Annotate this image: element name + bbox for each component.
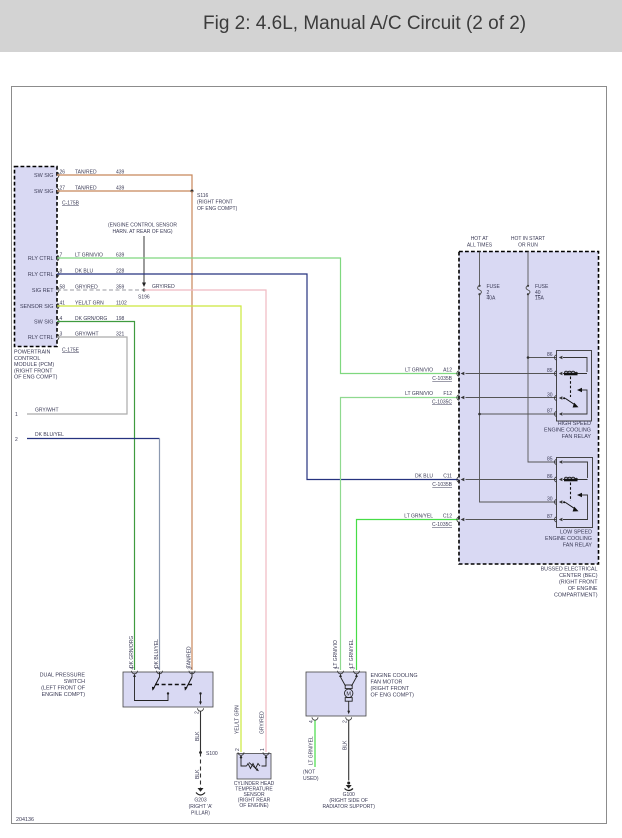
branch to high relay 87 <box>480 413 557 415</box>
svg-text:C12: C12 <box>443 514 452 520</box>
switch common contact to pin 2 <box>195 692 204 714</box>
svg-text:S116: S116 <box>197 193 209 199</box>
feed label HOT AT ALL TIMES <box>467 236 493 249</box>
high relay pin 30 and blade <box>547 393 579 408</box>
svg-text:DK BLU/YEL: DK BLU/YEL <box>35 432 64 438</box>
svg-text:(RIGHT FRONT: (RIGHT FRONT <box>371 686 410 692</box>
svg-text:RLY CTRL: RLY CTRL <box>28 335 54 341</box>
svg-text:C11: C11 <box>443 474 452 480</box>
svg-text:SW SIG: SW SIG <box>34 189 53 195</box>
splice S116 <box>191 190 194 193</box>
wire DK BLU pin 8 to BEC C11 <box>57 274 459 480</box>
wire LT GRN/VIO F12 to fan motor pin 1 <box>341 398 459 671</box>
svg-text:DK BLU/YEL: DK BLU/YEL <box>154 639 160 668</box>
svg-text:GRY/RED: GRY/RED <box>152 284 175 290</box>
feed wire 1 (fuse 2 to relays 87/30) <box>480 252 557 503</box>
junction <box>527 356 530 359</box>
svg-text:1: 1 <box>335 667 341 670</box>
svg-text:2: 2 <box>343 720 349 723</box>
CHT sensor box <box>237 754 271 780</box>
svg-text:GRY/RED: GRY/RED <box>260 711 266 734</box>
svg-text:MODULE (PCM): MODULE (PCM) <box>14 362 54 368</box>
BEC entry labels A12 <box>405 368 453 383</box>
svg-text:USED): USED) <box>303 776 319 782</box>
svg-text:204136: 204136 <box>16 817 34 823</box>
harness callout note <box>108 223 177 236</box>
svg-text:POWERTRAIN: POWERTRAIN <box>14 350 51 356</box>
svg-text:OF ENGINE): OF ENGINE) <box>239 803 269 809</box>
svg-text:LT GRN/YEL: LT GRN/YEL <box>404 514 433 520</box>
PCM pin 58 label SIG RET <box>32 285 125 294</box>
switch pin 1 <box>152 667 163 691</box>
low speed relay box <box>557 458 593 528</box>
svg-text:2: 2 <box>235 748 241 751</box>
svg-text:LT GRN/YEL: LT GRN/YEL <box>349 639 355 668</box>
high relay pin 86 <box>547 352 587 372</box>
CHT sensor caption <box>234 781 275 809</box>
svg-text:3: 3 <box>351 667 357 670</box>
svg-text:BLK: BLK <box>343 740 349 750</box>
svg-text:85: 85 <box>547 368 553 374</box>
PCM pin 7 label RLY CTRL <box>28 253 125 262</box>
svg-text:M: M <box>346 691 351 697</box>
feed wire 2 (fuse 40 to relays 86/85) <box>528 252 557 463</box>
svg-text:FAN RELAY: FAN RELAY <box>562 434 592 440</box>
BEC entry labels C12 <box>404 514 452 529</box>
low relay pin 87 and contact <box>547 493 588 522</box>
svg-text:S100: S100 <box>206 751 218 757</box>
low relay pin 86 and coil <box>547 474 588 482</box>
svg-text:COMPARTMENT): COMPARTMENT) <box>554 593 598 599</box>
svg-text:ENGINE COMPT): ENGINE COMPT) <box>42 692 86 698</box>
svg-text:OF ENGINE: OF ENGINE <box>568 586 598 592</box>
header bar <box>0 0 622 52</box>
BEC entry labels C11 <box>415 474 453 489</box>
svg-text:1: 1 <box>260 748 266 751</box>
splice S196 <box>143 289 146 292</box>
svg-text:OF ENG COMPT): OF ENG COMPT) <box>14 375 58 381</box>
svg-text:2: 2 <box>15 437 18 443</box>
BEC entry connector C11 <box>457 477 557 483</box>
dual pressure switch box <box>123 672 213 707</box>
switch pin 3 <box>184 667 195 691</box>
svg-text:30: 30 <box>547 497 553 503</box>
svg-text:G203: G203 <box>194 798 206 804</box>
wire YEL/LT GRN pin 41 to CHT sensor <box>57 306 241 752</box>
wire DK BLU/YEL vertical to pressure switch <box>159 439 161 671</box>
svg-text:CENTER (BEC): CENTER (BEC) <box>559 573 598 579</box>
svg-text:FAN RELAY: FAN RELAY <box>563 543 593 549</box>
low relay pin 85 <box>547 457 588 479</box>
svg-text:RLY CTRL: RLY CTRL <box>28 272 54 278</box>
motor M symbol <box>345 685 353 714</box>
svg-text:OF ENG COMPT): OF ENG COMPT) <box>197 206 238 212</box>
svg-text:LT GRN/VIO: LT GRN/VIO <box>405 368 433 374</box>
motor pin 2 ground lead <box>343 717 352 780</box>
svg-text:SW SIG: SW SIG <box>34 320 53 326</box>
svg-text:S196: S196 <box>138 295 150 301</box>
switch linkage dashes <box>155 684 192 686</box>
BEC entry labels F12 <box>405 391 452 406</box>
high speed relay box <box>557 351 592 422</box>
BEC box <box>459 252 599 565</box>
svg-text:87: 87 <box>547 514 553 520</box>
low relay caption <box>545 530 592 549</box>
svg-text:C-1035B: C-1035B <box>432 482 452 488</box>
svg-text:F12: F12 <box>443 391 452 397</box>
switch pin 4 <box>130 667 169 701</box>
wire GRY/RED solid to CHT sensor <box>144 290 266 752</box>
feed label HOT IN START OR RUN <box>511 236 545 249</box>
svg-text:(ENGINE CONTROL SENSOR: (ENGINE CONTROL SENSOR <box>108 223 177 229</box>
svg-text:HOT AT: HOT AT <box>471 236 489 242</box>
wire GRY/RED dashed segment to S196 <box>57 289 144 291</box>
svg-text:C-1035B: C-1035B <box>432 376 452 382</box>
svg-text:2: 2 <box>195 711 201 714</box>
motor pin 1 <box>335 667 346 687</box>
svg-text:DK BLU: DK BLU <box>415 474 433 480</box>
svg-text:RLY CTRL: RLY CTRL <box>28 256 54 262</box>
svg-text:(LEFT FRONT OF: (LEFT FRONT OF <box>41 686 86 692</box>
svg-text:OF ENG COMPT): OF ENG COMPT) <box>371 693 415 699</box>
PCM pin 26 label SW SIG <box>34 170 125 179</box>
svg-text:LT GRN/VIO: LT GRN/VIO <box>333 640 339 668</box>
PCM pin 8 label RLY CTRL <box>28 269 125 278</box>
svg-text:BLK: BLK <box>195 731 201 741</box>
wire GRY/WHT pin 3 to lead 1 <box>27 337 127 414</box>
high relay armature linkage <box>570 377 572 398</box>
svg-text:ENGINE COOLING: ENGINE COOLING <box>545 536 592 542</box>
svg-text:ENGINE COOLING: ENGINE COOLING <box>371 673 418 679</box>
svg-text:DK GRN/ORG: DK GRN/ORG <box>129 636 135 668</box>
wire TAN/RED pin 26 <box>57 175 192 191</box>
svg-text:1: 1 <box>15 412 18 418</box>
svg-text:C-1035C: C-1035C <box>432 522 452 528</box>
svg-text:85: 85 <box>547 457 553 463</box>
low relay armature linkage <box>570 483 572 502</box>
svg-text:(RIGHT FRONT: (RIGHT FRONT <box>559 580 598 586</box>
PCM pin 3 label RLY CTRL <box>28 332 125 341</box>
sensor pin 2 <box>235 748 247 766</box>
svg-text:FAN MOTOR: FAN MOTOR <box>371 680 403 686</box>
wire DK GRN/ORG pin 4 to pressure switch <box>57 322 135 671</box>
svg-text:1: 1 <box>155 667 161 670</box>
PCM pin 41 label SENSOR SIG <box>20 301 127 310</box>
svg-text:86: 86 <box>547 474 553 480</box>
svg-text:4: 4 <box>130 667 136 670</box>
svg-text:(RIGHT FRONT: (RIGHT FRONT <box>197 200 233 206</box>
svg-text:(NOT: (NOT <box>303 770 315 776</box>
svg-text:ENGINE COOLING: ENGINE COOLING <box>544 428 591 434</box>
wire BLK dashed to ground <box>200 753 202 789</box>
svg-text:SWITCH: SWITCH <box>64 679 85 685</box>
motor caption <box>371 673 418 699</box>
svg-text:BUSSED ELECTRICAL: BUSSED ELECTRICAL <box>541 567 598 573</box>
BEC entry connector C12 <box>457 517 557 523</box>
splice S100 <box>199 751 202 754</box>
svg-text:LOW SPEED: LOW SPEED <box>560 530 592 536</box>
svg-text:40A: 40A <box>487 296 497 302</box>
sensor pin 1 <box>260 748 269 766</box>
svg-text:HARN. AT REAR OF ENG): HARN. AT REAR OF ENG) <box>112 229 172 235</box>
BEC entry connector A12 <box>457 371 557 377</box>
ground G100 <box>322 782 375 811</box>
svg-text:PILLAR): PILLAR) <box>191 811 210 817</box>
svg-text:30: 30 <box>547 393 553 399</box>
svg-text:BLK: BLK <box>195 769 201 779</box>
fuse 2 40A <box>478 284 501 302</box>
svg-text:SW SIG: SW SIG <box>34 173 53 179</box>
svg-text:SIG RET: SIG RET <box>32 288 54 294</box>
svg-text:3: 3 <box>188 667 194 670</box>
svg-text:OR RUN: OR RUN <box>518 243 538 249</box>
svg-text:ALL TIMES: ALL TIMES <box>467 243 493 249</box>
svg-text:A12: A12 <box>443 368 452 374</box>
wire TAN/RED vertical to switch <box>191 191 193 670</box>
wire LT GRN/YEL C12 to fan motor pin 3 <box>357 520 459 671</box>
wire BLK from switch <box>200 711 202 752</box>
svg-text:CONTROL: CONTROL <box>14 356 40 362</box>
PCM pin 27 label SW SIG <box>34 186 125 195</box>
motor pin 4 (not used) <box>303 717 319 782</box>
fan motor box <box>306 672 366 716</box>
high relay pin 87 and contact <box>547 388 587 417</box>
svg-text:15A: 15A <box>535 296 545 302</box>
svg-text:4: 4 <box>309 720 315 723</box>
PCM caption <box>14 350 58 381</box>
wire LT GRN/VIO pin 7 to BEC A12 <box>57 258 459 374</box>
thermistor element <box>247 763 261 772</box>
PCM module box <box>15 167 58 347</box>
junction <box>478 413 481 416</box>
BEC entry connector F12 <box>457 395 557 401</box>
svg-text:RADIATOR SUPPORT): RADIATOR SUPPORT) <box>322 804 375 810</box>
svg-text:C-1035C: C-1035C <box>432 400 452 406</box>
high relay pin 85 and coil <box>547 368 587 376</box>
svg-text:SENSOR SIG: SENSOR SIG <box>20 304 54 310</box>
svg-text:(RIGHT 'A': (RIGHT 'A' <box>189 804 213 810</box>
svg-text:(RIGHT FRONT: (RIGHT FRONT <box>14 368 53 374</box>
svg-text:GRY/WHT: GRY/WHT <box>35 408 59 414</box>
svg-text:HOT IN START: HOT IN START <box>511 236 545 242</box>
svg-text:C-175E: C-175E <box>62 348 80 354</box>
svg-text:TAN/RED: TAN/RED <box>187 646 193 668</box>
PCM pin 4 label SW SIG <box>34 316 125 325</box>
svg-text:86: 86 <box>547 352 553 358</box>
svg-text:DUAL PRESSURE: DUAL PRESSURE <box>40 673 86 679</box>
svg-text:LT GRN/YEL: LT GRN/YEL <box>309 736 315 765</box>
svg-text:87: 87 <box>547 409 553 415</box>
ground G203 <box>189 788 213 817</box>
switch caption <box>40 673 86 699</box>
fuse 40 15A <box>526 284 549 302</box>
svg-text:HIGH SPEED: HIGH SPEED <box>558 421 591 427</box>
high relay caption <box>544 421 591 440</box>
low relay pin 30 and blade <box>547 497 579 512</box>
wire TAN/RED pin 27 <box>57 190 192 192</box>
svg-text:YEL/LT GRN: YEL/LT GRN <box>235 705 241 734</box>
callout arrow <box>142 236 146 287</box>
branch to high relay 86 <box>528 357 557 359</box>
svg-text:LT GRN/VIO: LT GRN/VIO <box>405 391 433 397</box>
svg-text:C-175B: C-175B <box>62 201 80 207</box>
wire DK BLU/YEL lead 2 horizontal <box>27 438 160 440</box>
motor pin 3 <box>351 667 360 687</box>
BEC caption <box>541 567 599 599</box>
